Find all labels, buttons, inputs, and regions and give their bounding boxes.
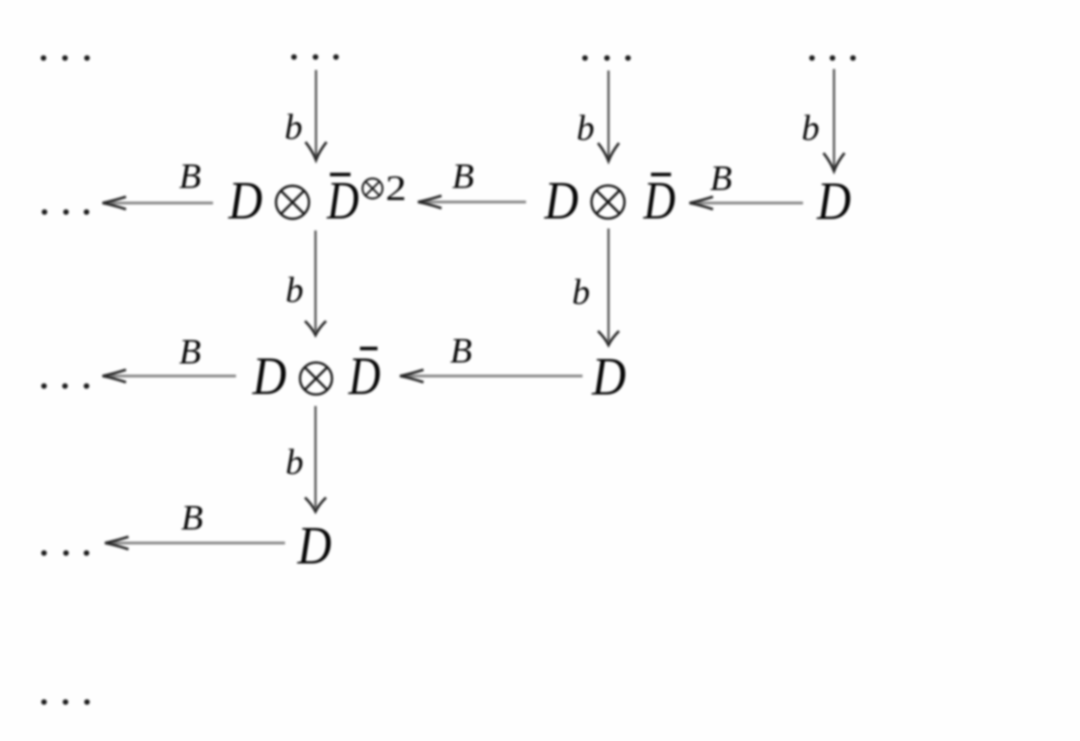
node D (row2 col2): [591, 347, 626, 407]
label b (col3 top): [802, 108, 820, 148]
svg-text:B: B: [181, 498, 203, 538]
arrow B row3 (wire): [105, 537, 285, 549]
dots row0 col2 (top ellipsis): [582, 55, 631, 61]
svg-text:b: b: [286, 442, 304, 482]
label b (col1 row2-row3): [286, 442, 304, 482]
svg-text:B: B: [179, 156, 201, 196]
svg-text:b: b: [285, 107, 303, 147]
node D⊗D̄^⊗2 (row1 col1): [228, 168, 407, 231]
label B (row2 middle): [450, 331, 472, 371]
arrow b col1 row2-row3 (wire): [305, 406, 326, 512]
dots row2 left ellipsis: [41, 383, 89, 389]
svg-text:B: B: [450, 331, 472, 371]
dots bottom-left ellipsis: [41, 699, 90, 705]
arrow B row1 middle (wire): [418, 196, 526, 208]
dots row0 col3 (top ellipsis): [809, 55, 856, 61]
svg-text:D: D: [348, 346, 381, 406]
dots row0 col0 (top-left ellipsis): [41, 55, 90, 61]
svg-text:D: D: [228, 171, 263, 231]
label b (col2 top): [577, 108, 595, 148]
dots row0 col1 (top ellipsis): [291, 54, 339, 60]
node D⊗D̄ (row1 col2): [544, 171, 676, 231]
label b (col1 row1-row2): [286, 270, 304, 310]
arrow b col3 top (wire): [824, 69, 845, 171]
label b (col1 top): [285, 107, 303, 147]
svg-text:B: B: [452, 156, 474, 196]
svg-text:B: B: [710, 158, 732, 198]
label B (row1 left): [179, 156, 201, 196]
dots row1 left ellipsis: [42, 209, 90, 215]
arrow b col1 top (wire): [306, 70, 327, 160]
svg-text:D: D: [326, 171, 359, 231]
svg-text:b: b: [802, 108, 820, 148]
arrow b col2 top (wire): [598, 71, 619, 162]
arrow b col1 row1-row2 (wire): [305, 231, 326, 336]
arrow B row1 right (wire): [690, 197, 804, 209]
svg-text:D: D: [544, 171, 579, 231]
label B (row1 middle): [452, 156, 474, 196]
svg-text:D: D: [252, 346, 287, 406]
svg-text:b: b: [286, 270, 304, 310]
svg-text:D: D: [643, 171, 676, 231]
svg-text:b: b: [572, 272, 590, 312]
label B (row3): [181, 498, 203, 538]
node D (row3 col1): [297, 516, 332, 576]
svg-text:B: B: [179, 332, 201, 372]
label B (row1 right): [710, 158, 732, 198]
svg-text:2: 2: [386, 168, 407, 208]
svg-text:D: D: [297, 516, 332, 576]
node D (row1 col3): [816, 171, 851, 231]
arrow B row1 left (wire): [103, 197, 214, 209]
node D⊗D̄ (row2 col1): [252, 346, 381, 406]
arrow B row2 left (wire): [103, 370, 237, 382]
label B (row2 left): [179, 332, 201, 372]
svg-text:b: b: [577, 108, 595, 148]
label b (col2 row1-row2): [572, 272, 590, 312]
svg-text:D: D: [816, 171, 851, 231]
svg-text:D: D: [591, 347, 626, 407]
arrow b col2 row1-row2 (wire): [598, 229, 619, 346]
arrow B row2 middle (wire): [400, 370, 583, 382]
dots row3 left ellipsis: [41, 550, 89, 556]
